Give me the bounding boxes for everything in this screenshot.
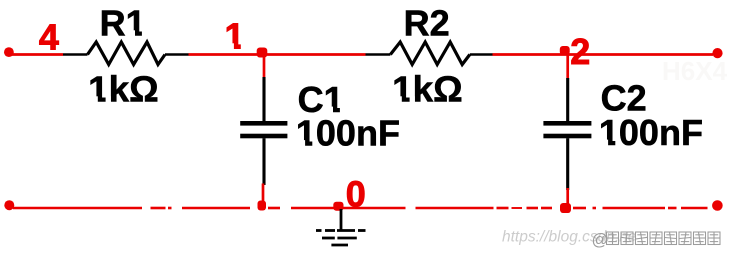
white masks: remove Liberation '1' foot serifs (target font has footless 1) <box>89 30 620 147</box>
svg-text:@: @ <box>592 231 609 249</box>
ground symbol lead <box>340 209 343 230</box>
svg-text:4: 4 <box>39 16 59 57</box>
ground symbol bar 3 <box>331 244 348 247</box>
capacitor C2 <box>543 78 591 190</box>
svg-text:2: 2 <box>570 31 590 72</box>
capacitor C1 <box>240 77 287 185</box>
node 2 junction dot <box>560 46 570 55</box>
svg-text:100nF: 100nF <box>296 112 400 153</box>
node 0 junction dot (at ground) <box>333 202 343 211</box>
resistor R2 <box>366 42 493 65</box>
watermark: juejin community (@ + CJK glyph blocks) <box>592 231 721 249</box>
svg-text:1kΩ: 1kΩ <box>88 69 159 110</box>
svg-text:1kΩ: 1kΩ <box>392 69 463 110</box>
node 2 output endpoint dot <box>712 48 722 58</box>
wire: C1 down to net 0 (red lower part of lead) <box>262 184 265 208</box>
junction dot: C2 to net 0 <box>560 203 571 213</box>
wire net1: R1 to node 1 to R2 (red) <box>189 53 366 56</box>
ground symbol bar 2 (broken by watermark) <box>322 237 357 240</box>
node 0 endpoint dot (bottom left) <box>4 200 14 210</box>
wire: node 1 down to C1 (red upper part of lead) <box>263 53 266 77</box>
resistor R1 <box>63 42 189 65</box>
svg-text:R1: R1 <box>100 3 146 44</box>
ground symbol bar 1 (broken by watermark) <box>316 229 366 232</box>
wire: node 2 down to C2 (red upper part of lead) <box>566 51 569 78</box>
node 1 junction dot <box>257 48 268 58</box>
node 4 endpoint dot <box>4 47 14 57</box>
node 0 endpoint dot (bottom right) <box>712 200 723 211</box>
svg-text:R2: R2 <box>404 3 450 44</box>
wire: C2 down to net 0 (red lower part of lead) <box>566 188 569 207</box>
svg-text:0: 0 <box>346 173 366 214</box>
wire net2: R2 to node 2 to output (red) <box>493 53 714 56</box>
svg-text:H6X4: H6X4 <box>662 56 728 86</box>
svg-text:100nF: 100nF <box>599 112 703 153</box>
wire net0: bottom rail segments (red, broken by watermark) <box>13 207 708 210</box>
wire net4: node 4 to R1 (red) <box>12 53 63 56</box>
svg-text:https://blog.csdn.ne: https://blog.csdn.ne <box>502 229 637 246</box>
junction dot: C1 to net 0 <box>258 201 267 211</box>
